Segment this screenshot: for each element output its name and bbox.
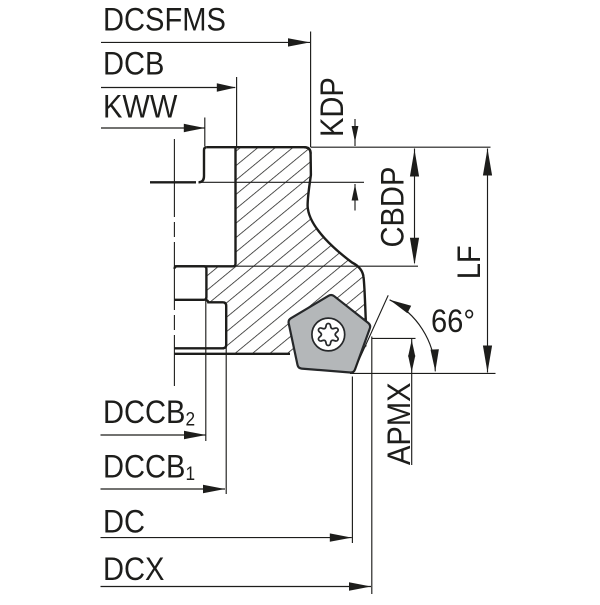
DCB dimension line (101, 87, 235, 89)
CBDP depth extension line (204, 265, 418, 267)
svg-text:DC: DC (103, 504, 145, 540)
DC dimension (101, 537, 352, 539)
KWW dimension line (101, 127, 205, 129)
counterbore wall (175, 266, 207, 300)
body right S-curve edge (304, 147, 366, 321)
KDP step extension line (201, 181, 364, 183)
DCCB2 dimension (101, 434, 207, 436)
hub bottom face (175, 353, 291, 355)
DCX dimension (101, 586, 372, 588)
insert clamp screw head (312, 318, 345, 351)
bore seat face (175, 347, 225, 349)
svg-text:DCCB: DCCB (103, 449, 185, 485)
DCSFMS dimension line (101, 41, 310, 43)
svg-text:LF: LF (452, 245, 488, 279)
svg-text:KDP: KDP (315, 77, 351, 137)
CBDP dimension line (414, 149, 416, 264)
cutting edge 66deg line (353, 295, 388, 373)
APMX top reference line (372, 337, 416, 339)
svg-text:KWW: KWW (103, 89, 177, 125)
svg-text:CBDP: CBDP (375, 167, 411, 248)
66deg dimension arc (390, 300, 436, 372)
center line (173, 139, 175, 217)
svg-text:DCCB: DCCB (103, 395, 185, 431)
DCCB1 dimension (101, 488, 226, 490)
svg-text:DCB: DCB (103, 46, 164, 82)
pentagon milling insert (289, 295, 371, 373)
svg-text:DCSFMS: DCSFMS (103, 2, 226, 38)
mount bore wall (hatch boundary) (175, 147, 236, 269)
body left edge of top flange (199, 147, 207, 182)
torx socket (318, 324, 338, 346)
top face extension line (311, 146, 491, 148)
bore recess step (206, 300, 227, 349)
rear hub face (150, 181, 196, 183)
svg-text:DCX: DCX (103, 552, 164, 588)
LF dimension line (487, 149, 489, 373)
svg-text:APMX: APMX (382, 383, 418, 465)
KDP dimension arrows (354, 119, 356, 146)
svg-text:1: 1 (186, 463, 196, 484)
hatched cutter body section (206, 147, 367, 354)
APMX dimension line (411, 338, 413, 465)
body top face (207, 147, 311, 153)
svg-text:2: 2 (186, 409, 196, 430)
svg-text:66°: 66° (431, 304, 475, 340)
bottom cutting face line (350, 372, 496, 374)
